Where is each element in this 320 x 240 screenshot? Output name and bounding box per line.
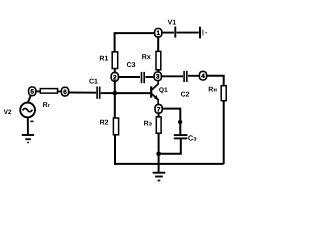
wire node4 to RH top <box>206 76 223 86</box>
svg-text:R2: R2 <box>100 119 109 126</box>
resistor Rx <box>156 51 161 69</box>
transistor Q1 <box>151 80 158 105</box>
node 4 <box>199 71 206 80</box>
battery V1 short plate <box>202 30 204 36</box>
capacitor C1 <box>97 87 100 99</box>
svg-text:C1: C1 <box>89 78 98 85</box>
wire C3 to node 3 <box>145 76 154 78</box>
wire between battery plates <box>176 32 198 34</box>
svg-text:Cэ: Cэ <box>188 133 197 142</box>
wire RH bottom to rail <box>223 101 225 164</box>
svg-text:C2: C2 <box>181 92 190 99</box>
wire node5 to Rr <box>36 90 41 92</box>
node 7 <box>155 105 162 114</box>
battery V1 left plate <box>174 27 176 38</box>
capacitor Ce <box>174 135 188 138</box>
ground bottom <box>153 173 166 181</box>
junction dot base <box>113 91 118 96</box>
node 5 <box>29 87 36 96</box>
resistor Re <box>156 117 161 133</box>
battery polarity dot <box>205 32 207 34</box>
svg-text:3: 3 <box>156 74 160 81</box>
wire V2 bottom to ground <box>27 117 29 134</box>
minus tick <box>30 120 33 122</box>
svg-text:6: 6 <box>63 89 67 96</box>
svg-text:Rэ: Rэ <box>144 120 153 127</box>
wire Re bottom to ground through rail <box>158 133 160 172</box>
svg-text:1: 1 <box>156 30 160 37</box>
node1 to Rx wire <box>157 36 159 51</box>
svg-text:V1: V1 <box>168 20 177 27</box>
svg-text:Rx: Rx <box>142 54 151 61</box>
node 2 <box>111 73 118 82</box>
source V2 <box>20 103 35 118</box>
capacitor C2 <box>184 71 187 82</box>
resistor R2 <box>113 118 118 135</box>
svg-text:5: 5 <box>30 89 34 96</box>
svg-text:R1: R1 <box>99 55 108 62</box>
node 3 <box>154 72 161 81</box>
wire V2 top to node 5 <box>28 94 32 102</box>
svg-text:Rг: Rг <box>43 102 51 109</box>
node 6 <box>61 87 68 96</box>
resistor R1 <box>112 52 118 69</box>
base wire <box>117 92 150 94</box>
wire Rx bottom to node 3 <box>157 70 159 73</box>
dot on Ce branch <box>178 120 182 124</box>
wire top: R1 top to node 1 <box>115 33 155 52</box>
battery V1 long plate <box>199 27 201 39</box>
wire R1 bottom to node 2 <box>114 69 116 74</box>
wire node3 to C2 <box>161 75 183 77</box>
svg-text:V2: V2 <box>4 109 12 116</box>
wire node6 to C1 <box>68 92 96 94</box>
wire Rr to node 6 <box>58 90 62 92</box>
wire C2 to node 4 <box>188 75 200 77</box>
wire R2 bottom to rail corner <box>115 135 224 164</box>
wire node7 to Re <box>158 112 160 117</box>
wire C1 to base junction <box>101 92 114 94</box>
wire node2 to C3 <box>118 76 140 78</box>
wire node2 down through base junction to R2 <box>114 80 116 118</box>
resistor RH <box>221 86 226 101</box>
ground V2 <box>22 135 34 143</box>
svg-text:C3: C3 <box>127 62 136 69</box>
node 1 <box>155 29 162 38</box>
resistor Rr <box>40 89 57 94</box>
wire Ce bottom to junction <box>158 139 181 154</box>
svg-text:Rн: Rн <box>208 86 217 93</box>
wire node7 to Ce branch <box>162 109 180 135</box>
junction dot Re/Ce <box>156 152 161 157</box>
svg-text:4: 4 <box>201 73 205 80</box>
svg-text:Q1: Q1 <box>159 87 168 94</box>
capacitor C3 <box>142 72 145 83</box>
wire node1 to battery <box>162 32 174 34</box>
